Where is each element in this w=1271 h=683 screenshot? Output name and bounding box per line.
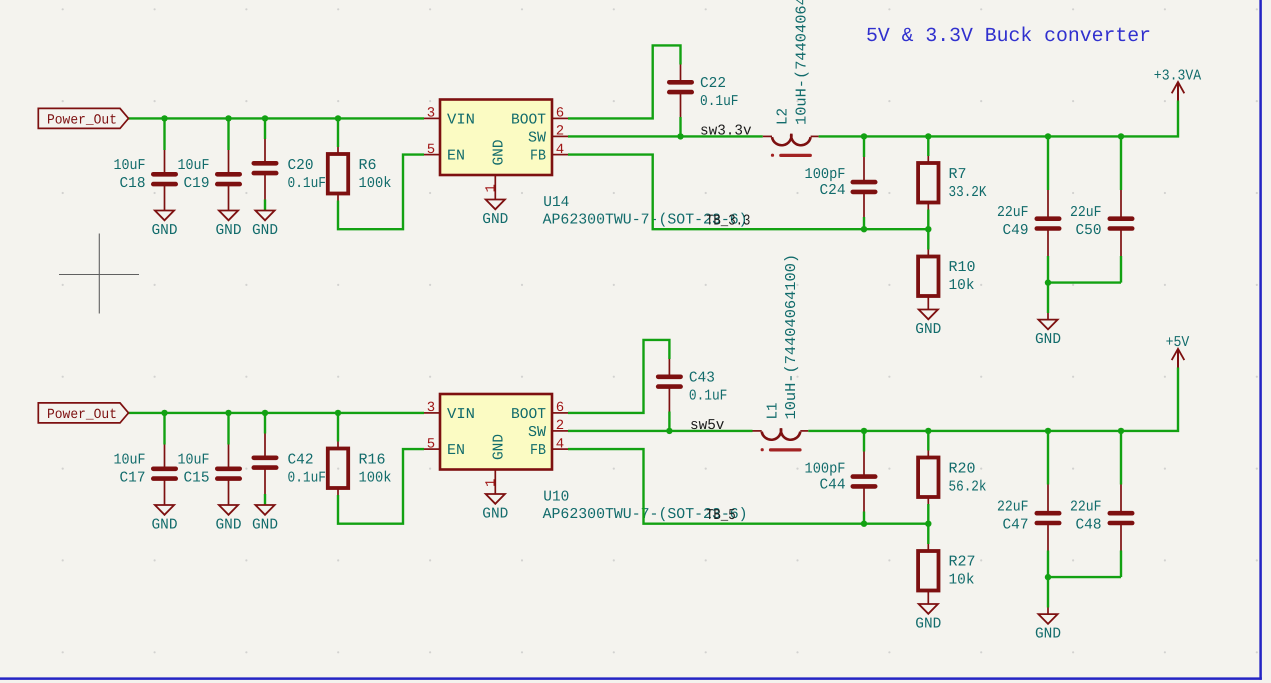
wire C48 drop	[1120, 431, 1122, 485]
resistor R6	[328, 154, 348, 194]
wire output net	[819, 101, 1178, 137]
junction fb r	[925, 521, 931, 527]
inductor L1 stubs	[753, 430, 762, 432]
svg-text:C20: C20	[288, 157, 314, 174]
capacitor C22	[669, 80, 691, 85]
sheet border right	[1259, 0, 1262, 680]
capacitor C43 leads	[668, 359, 670, 377]
svg-text:Power_Out: Power_Out	[47, 407, 117, 423]
svg-text:10uH-(744040642): 10uH-(744040642)	[793, 0, 810, 125]
wire SW net	[568, 430, 753, 432]
svg-text:GND: GND	[252, 517, 278, 534]
svg-text:56.2k: 56.2k	[949, 479, 987, 496]
power symbol +3.3VA	[1177, 83, 1179, 101]
power flag PWR2	[38, 403, 128, 423]
pin 5 EN stub	[424, 448, 440, 450]
svg-text:0.1uF: 0.1uF	[700, 93, 739, 110]
junction out r7	[925, 133, 931, 139]
capacitor C50 leads	[1120, 190, 1122, 219]
wire C50 down	[1120, 256, 1122, 283]
svg-text:22uF: 22uF	[1070, 204, 1102, 221]
resistor R10	[918, 257, 938, 297]
wire r3 drop	[927, 524, 929, 544]
pin 2 SW stub	[552, 135, 568, 137]
svg-text:5: 5	[427, 436, 435, 452]
resistor R7	[918, 163, 938, 203]
junction out r7	[925, 428, 931, 434]
pin 4 FB stub	[552, 154, 568, 156]
wire c4 to fb	[863, 217, 865, 229]
junction input C2	[225, 410, 231, 416]
junction out c49	[1045, 133, 1051, 139]
svg-text:FB: FB	[530, 148, 546, 165]
svg-text:C15: C15	[184, 470, 210, 487]
ground outcaps	[1038, 614, 1057, 624]
wire r2 to fb	[927, 210, 929, 230]
junction input R	[335, 410, 341, 416]
capacitor C50	[1110, 216, 1132, 221]
capacitor C15	[217, 466, 239, 471]
ground C15	[219, 505, 238, 515]
svg-text:5V & 3.3V Buck converter: 5V & 3.3V Buck converter	[866, 25, 1151, 48]
wire r1 drop	[337, 413, 339, 442]
resistor R10 leads	[927, 250, 929, 257]
svg-text:1: 1	[483, 479, 499, 487]
svg-text:R10: R10	[949, 259, 976, 276]
wire c1 drop	[163, 118, 165, 150]
power symbol +5V	[1177, 350, 1179, 368]
pin 3 VIN stub	[424, 412, 440, 414]
ground R10	[919, 310, 938, 320]
wire input net	[129, 117, 425, 119]
pin 6 BOOT stub	[552, 117, 568, 119]
wire C50 drop	[1120, 136, 1122, 190]
wire c3 drop	[264, 413, 266, 434]
svg-text:C24: C24	[820, 182, 846, 199]
wire cap to SW	[679, 117, 681, 136]
svg-text:10uF: 10uF	[114, 157, 146, 174]
junction out c44	[861, 428, 867, 434]
svg-text:R20: R20	[949, 461, 976, 478]
svg-text:SW: SW	[528, 129, 546, 146]
junction sw cap	[677, 133, 683, 139]
svg-text:GND: GND	[152, 222, 178, 239]
svg-text:C47: C47	[1003, 517, 1029, 534]
capacitor C49	[1037, 216, 1059, 221]
junction out c49	[1045, 428, 1051, 434]
junction input C1	[161, 410, 167, 416]
junction input C3	[262, 115, 268, 121]
capacitor C43	[658, 374, 680, 379]
svg-text:FB: FB	[530, 442, 546, 459]
svg-text:sw3.3v: sw3.3v	[700, 123, 752, 140]
inductor L1	[762, 428, 801, 439]
svg-text:R7: R7	[949, 166, 967, 183]
wire output net	[808, 368, 1178, 431]
power flag PWR1	[38, 108, 128, 128]
wire r2 to fb	[927, 504, 929, 524]
resistor R20	[918, 458, 938, 498]
wire r3 drop	[927, 229, 929, 249]
svg-text:R6: R6	[359, 157, 377, 174]
capacitor C18	[153, 172, 175, 177]
svg-text:U10: U10	[543, 489, 569, 506]
svg-text:2: 2	[556, 418, 564, 434]
svg-text:GND: GND	[915, 616, 941, 633]
svg-text:0.1uF: 0.1uF	[288, 175, 327, 192]
svg-text:+5V: +5V	[1166, 334, 1190, 351]
svg-text:C17: C17	[120, 470, 146, 487]
pin 6 BOOT stub	[552, 412, 568, 414]
wire C49 down	[1047, 256, 1049, 283]
svg-text:GND: GND	[915, 321, 941, 338]
capacitor C49 leads	[1047, 190, 1049, 219]
svg-text:R27: R27	[949, 554, 976, 571]
junction fb r	[925, 226, 931, 232]
svg-text:GND: GND	[216, 222, 242, 239]
svg-text:5: 5	[427, 142, 435, 158]
capacitor C17	[153, 466, 175, 471]
svg-text:R16: R16	[359, 452, 386, 469]
wire C47 drop	[1047, 431, 1049, 485]
junction input R	[335, 115, 341, 121]
pin 2 SW stub	[552, 430, 568, 432]
svg-text:0.1uF: 0.1uF	[288, 470, 327, 487]
resistor R6 leads	[337, 147, 339, 154]
svg-text:10uF: 10uF	[178, 157, 210, 174]
svg-text:Power_Out: Power_Out	[47, 112, 117, 128]
wire r1 drop	[337, 118, 339, 147]
svg-text:10uF: 10uF	[114, 452, 146, 469]
svg-text:22uF: 22uF	[1070, 499, 1102, 516]
svg-text:6: 6	[556, 400, 564, 416]
svg-text:100k: 100k	[359, 175, 392, 192]
wire outcap join	[1048, 281, 1121, 283]
svg-text:VIN: VIN	[447, 111, 475, 128]
op-amp U14 body	[440, 100, 552, 176]
svg-text:GND: GND	[482, 506, 508, 523]
wire C48 down	[1120, 551, 1122, 578]
capacitor C47 leads	[1047, 485, 1049, 514]
svg-text:10k: 10k	[949, 572, 975, 589]
svg-text:TB_3.3: TB_3.3	[706, 212, 750, 229]
inductor L2 stubs	[763, 135, 772, 137]
wire C49 drop	[1047, 136, 1049, 190]
svg-text:BOOT: BOOT	[511, 111, 546, 128]
svg-text:VIN: VIN	[447, 406, 475, 423]
svg-text:GND: GND	[482, 211, 508, 228]
wire r1 to EN	[338, 449, 424, 524]
wire BOOT to cap	[568, 340, 669, 413]
junction outcap	[1045, 574, 1051, 580]
svg-text:C48: C48	[1076, 517, 1102, 534]
resistor R27 leads	[927, 544, 929, 551]
svg-text:10uF: 10uF	[178, 452, 210, 469]
wire c3 to gnd	[264, 200, 266, 211]
pin 1 GND stub	[494, 470, 496, 495]
junction fb c4	[861, 226, 867, 232]
svg-text:sw5v: sw5v	[690, 417, 724, 434]
wire c3 to gnd	[264, 494, 266, 505]
svg-text:EN: EN	[447, 442, 465, 459]
junction out c50	[1118, 133, 1124, 139]
svg-text:0.1uF: 0.1uF	[689, 388, 728, 405]
junction input C3	[262, 410, 268, 416]
svg-text:EN: EN	[447, 148, 465, 165]
capacitor C42	[254, 455, 276, 460]
svg-text:GND: GND	[491, 140, 508, 166]
capacitor C17 leads	[164, 445, 166, 469]
svg-text:+3.3VA: +3.3VA	[1154, 68, 1201, 85]
capacitor C24	[853, 180, 875, 185]
svg-text:10k: 10k	[949, 277, 975, 294]
pin 1 GND stub	[494, 175, 496, 200]
wire r1 to EN	[338, 155, 424, 230]
ground C20	[255, 211, 274, 221]
pin 4 FB stub	[552, 448, 568, 450]
wire outcap to gnd	[1047, 577, 1049, 607]
capacitor C18 leads	[164, 150, 166, 174]
svg-text:C50: C50	[1076, 222, 1102, 239]
ground C18	[155, 211, 174, 221]
svg-text:33.2K: 33.2K	[949, 184, 987, 201]
origin crosshair	[59, 274, 139, 276]
ground U14	[486, 200, 505, 210]
svg-text:L1: L1	[764, 403, 781, 420]
svg-text:BOOT: BOOT	[511, 406, 546, 423]
wire SW net	[568, 135, 763, 137]
svg-text:6: 6	[556, 106, 564, 122]
svg-text:C43: C43	[689, 370, 715, 387]
capacitor C19	[217, 172, 239, 177]
resistor R7 leads	[927, 156, 929, 163]
svg-text:10uH-(74404064100): 10uH-(74404064100)	[783, 254, 800, 420]
wire r2 drop	[927, 431, 929, 451]
ground C17	[155, 505, 174, 515]
resistor R16 leads	[337, 442, 339, 449]
wire FB net	[568, 155, 928, 230]
svg-text:4: 4	[556, 436, 564, 452]
junction fb c4	[861, 521, 867, 527]
svg-text:U14: U14	[543, 194, 569, 211]
capacitor C20 leads	[264, 139, 266, 163]
svg-text:3: 3	[427, 400, 435, 416]
capacitor C15 leads	[228, 445, 230, 469]
capacitor C22 leads	[680, 65, 682, 83]
capacitor C48	[1110, 511, 1132, 516]
svg-text:C49: C49	[1003, 222, 1029, 239]
junction input C1	[161, 115, 167, 121]
wire BOOT to cap	[568, 45, 681, 118]
wire c4 drop	[863, 136, 865, 157]
svg-text:GND: GND	[1035, 626, 1061, 643]
svg-text:2: 2	[556, 124, 564, 140]
svg-text:100pF: 100pF	[805, 461, 846, 478]
wire C47 down	[1047, 551, 1049, 578]
ground R27	[919, 604, 938, 614]
svg-text:1: 1	[483, 184, 499, 192]
svg-text:GND: GND	[491, 434, 508, 460]
pin 5 EN stub	[424, 154, 440, 156]
ground U10	[486, 494, 505, 504]
svg-text:GND: GND	[252, 222, 278, 239]
wire c4 drop	[863, 431, 865, 452]
resistor R20 leads	[927, 451, 929, 458]
capacitor C20	[254, 161, 276, 166]
svg-text:4: 4	[556, 142, 564, 158]
svg-text:C18: C18	[120, 175, 146, 192]
svg-text:L2: L2	[775, 108, 792, 125]
capacitor C44	[853, 474, 875, 479]
svg-text:GND: GND	[216, 517, 242, 534]
svg-text:GND: GND	[152, 517, 178, 534]
capacitor C19 leads	[228, 150, 230, 174]
wire c4 to fb	[863, 512, 865, 524]
svg-text:C19: C19	[184, 175, 210, 192]
svg-text:SW: SW	[528, 424, 546, 441]
svg-text:3: 3	[427, 106, 435, 122]
svg-text:C22: C22	[700, 75, 726, 92]
svg-text:C42: C42	[288, 452, 314, 469]
wire c3 drop	[264, 118, 266, 139]
capacitor C42 leads	[264, 434, 266, 458]
resistor R16	[328, 449, 348, 489]
wire outcap to gnd	[1047, 283, 1049, 313]
wire c2 drop	[227, 413, 229, 445]
junction out c44	[861, 133, 867, 139]
pin 3 VIN stub	[424, 117, 440, 119]
svg-text:22uF: 22uF	[997, 499, 1029, 516]
svg-text:GND: GND	[1035, 331, 1061, 348]
capacitor C24 leads	[863, 157, 865, 182]
svg-text:22uF: 22uF	[997, 204, 1029, 221]
wire c2 drop	[227, 118, 229, 150]
capacitor C47	[1037, 511, 1059, 516]
wire input net	[129, 412, 425, 414]
junction out c50	[1118, 428, 1124, 434]
junction input C2	[225, 115, 231, 121]
junction sw cap	[666, 428, 672, 434]
capacitor C44 leads	[863, 452, 865, 477]
svg-text:TB_5: TB_5	[706, 507, 736, 524]
svg-text:C44: C44	[820, 477, 846, 494]
wire r2 drop	[927, 136, 929, 156]
ground C19	[219, 211, 238, 221]
svg-text:100k: 100k	[359, 470, 392, 487]
wire FB net	[568, 449, 928, 524]
wire cap to SW	[668, 412, 670, 431]
ground C42	[255, 505, 274, 515]
resistor R27	[918, 551, 938, 591]
capacitor C48 leads	[1120, 485, 1122, 514]
wire c1 drop	[163, 413, 165, 445]
wire outcap join	[1048, 576, 1121, 578]
sheet border bottom	[0, 677, 1262, 680]
op-amp U10 body	[440, 394, 552, 470]
junction outcap	[1045, 279, 1051, 285]
inductor L2	[772, 134, 811, 145]
svg-text:100pF: 100pF	[805, 166, 846, 183]
ground outcaps	[1038, 320, 1057, 330]
